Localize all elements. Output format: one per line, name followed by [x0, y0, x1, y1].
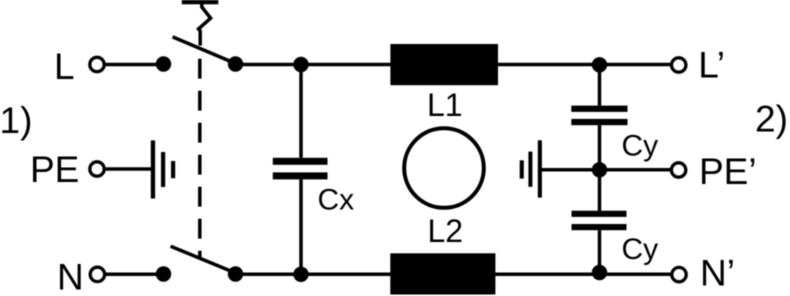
svg-text:PE’: PE’: [699, 151, 757, 192]
svg-text:L: L: [54, 46, 75, 87]
svg-text:L1: L1: [427, 87, 463, 123]
svg-text:PE: PE: [30, 149, 79, 190]
svg-text:L’: L’: [698, 45, 725, 86]
svg-text:Cy: Cy: [622, 129, 659, 162]
svg-text:Cy: Cy: [622, 233, 659, 266]
svg-text:2): 2): [755, 99, 788, 140]
svg-text:N: N: [57, 257, 84, 296]
svg-text:L2: L2: [428, 213, 464, 249]
svg-text:1): 1): [0, 100, 32, 141]
svg-text:N’: N’: [700, 253, 735, 294]
svg-text:Cx: Cx: [318, 184, 355, 217]
